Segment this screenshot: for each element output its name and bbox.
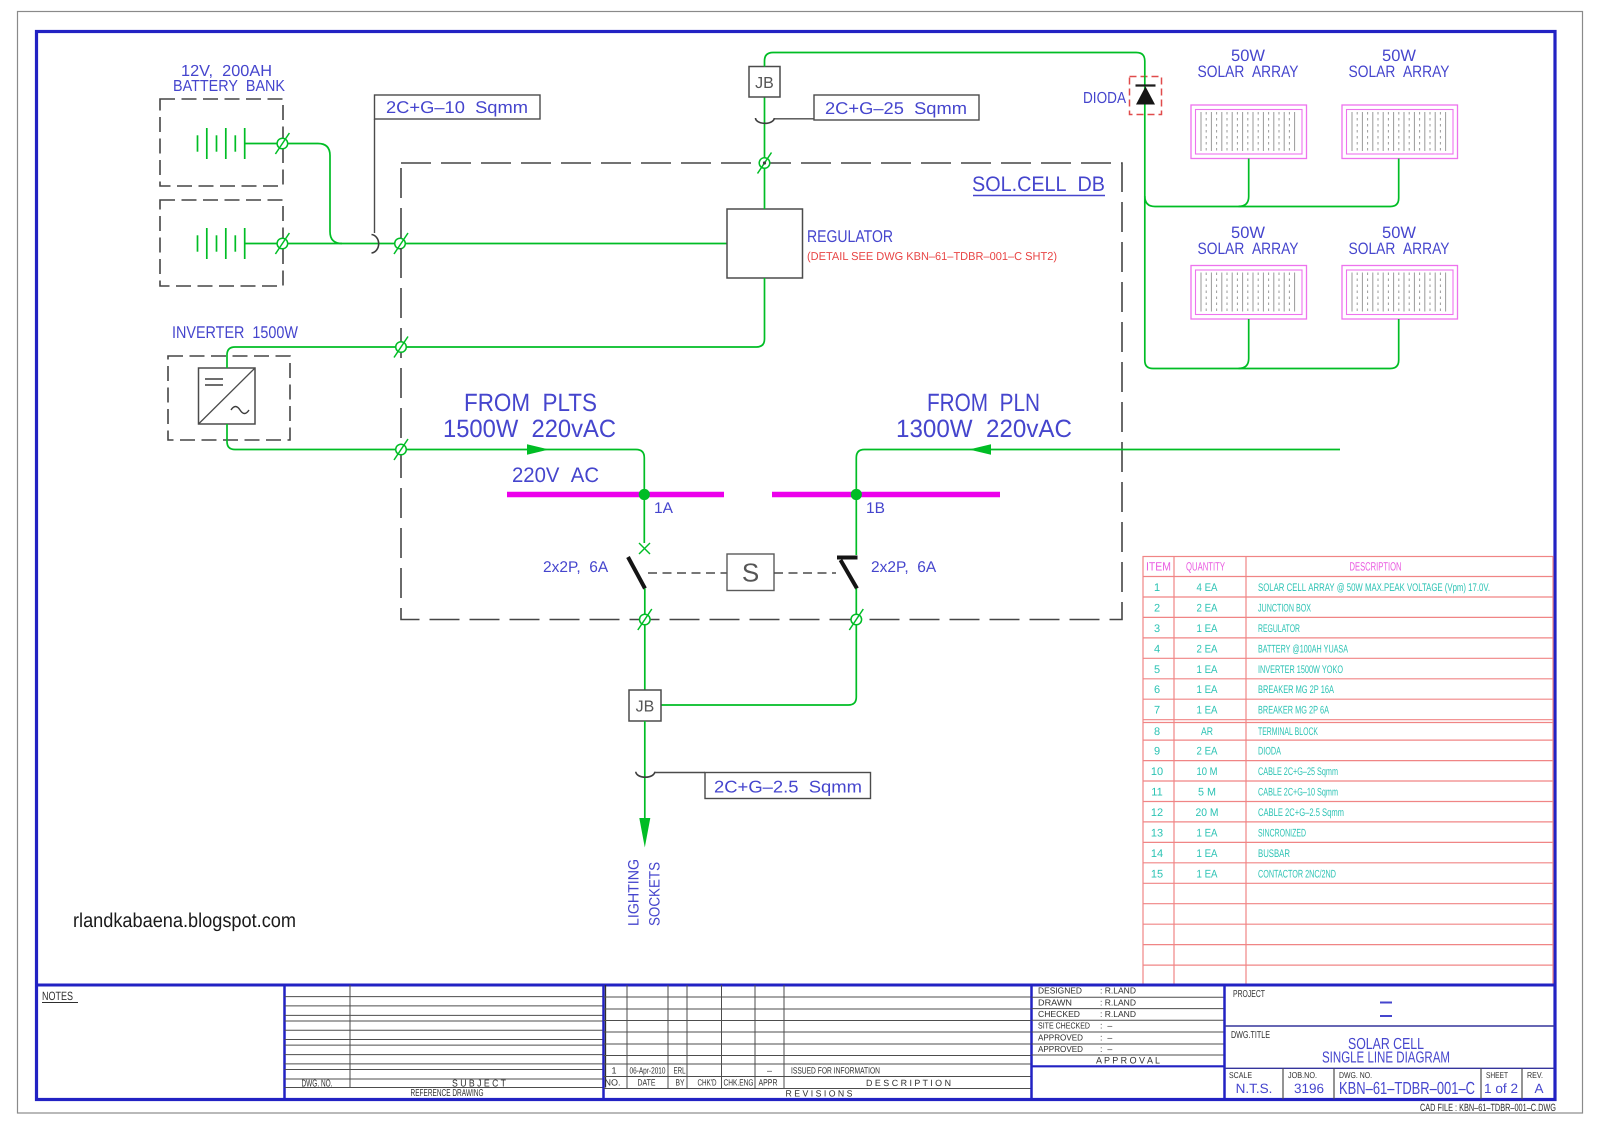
svg-text:–: – [767, 1066, 772, 1076]
dashed link breaker1 to S [648, 572, 727, 574]
svg-text:APPR: APPR [759, 1078, 778, 1088]
approval entries [1038, 986, 1160, 1067]
wire inverter to regulator [227, 278, 765, 368]
project divider [1223, 985, 1226, 1100]
dwg title label [1231, 1030, 1270, 1041]
junction terminal DB left (AC feed) [394, 439, 408, 460]
svg-text:CABLE 2C+G–10 Sqmm: CABLE 2C+G–10 Sqmm [1258, 787, 1338, 799]
svg-text:JOB.NO.: JOB.NO. [1288, 1070, 1317, 1080]
svg-text:REV.: REV. [1527, 1070, 1543, 1080]
svg-text:CABLE 2C+G–25 Sqmm: CABLE 2C+G–25 Sqmm [1258, 766, 1338, 778]
SOL.CELL DB label [972, 173, 1105, 196]
cad file note [1420, 1102, 1556, 1114]
svg-text:BREAKER MG 2P 16A: BREAKER MG 2P 16A [1258, 684, 1334, 696]
svg-text:2C+G–10 Sqmm: 2C+G–10 Sqmm [386, 98, 528, 117]
2x2P 6A label right [871, 559, 937, 576]
solar panel PV1 [1191, 105, 1307, 159]
BOM table grid [1143, 557, 1553, 986]
svg-text:15: 15 [1151, 868, 1163, 880]
battery B2 [198, 228, 245, 259]
node 1A [639, 489, 674, 517]
revisions divider [604, 985, 606, 1100]
node 1B [851, 489, 885, 517]
battery B1 [198, 128, 245, 159]
svg-text:1: 1 [611, 1066, 616, 1076]
wire 1B to breaker CB2 [855, 495, 857, 556]
svg-text:AR: AR [1201, 726, 1213, 738]
solar panel PV4 [1342, 266, 1458, 320]
cable label 2C+G-25 box [814, 95, 979, 120]
svg-text:BATTERY BANK: BATTERY BANK [173, 78, 285, 95]
svg-text:REGULATOR: REGULATOR [807, 227, 893, 246]
svg-text:DATE: DATE [638, 1078, 656, 1088]
svg-text:FROM PLN: FROM PLN [927, 389, 1040, 417]
svg-text:11: 11 [1151, 787, 1162, 799]
svg-text:SOLAR ARRAY: SOLAR ARRAY [1349, 240, 1450, 258]
wire breaker CB1 down [644, 589, 646, 691]
wire battery B2 lead [245, 243, 277, 245]
svg-text:13: 13 [1151, 827, 1163, 839]
svg-text:NOTES: NOTES [42, 989, 73, 1003]
svg-text:CHK'D: CHK'D [698, 1078, 717, 1088]
title block top blue line [37, 984, 1555, 987]
svg-text:1 of 2: 1 of 2 [1484, 1081, 1518, 1096]
leader line cable 10 [374, 119, 376, 233]
svg-text:QUANTITY: QUANTITY [1186, 560, 1225, 574]
svg-text:DESIGNED: DESIGNED [1038, 986, 1082, 996]
scale row labels [1229, 1070, 1543, 1080]
svg-text:N.T.S.: N.T.S. [1236, 1081, 1273, 1096]
svg-text:2C+G–25 Sqmm: 2C+G–25 Sqmm [825, 99, 967, 118]
svg-text:INVERTER 1500W: INVERTER 1500W [172, 323, 298, 342]
svg-text:10 M: 10 M [1197, 766, 1218, 778]
arrow PLTS flow [527, 444, 549, 454]
svg-text:7: 7 [1154, 705, 1160, 717]
breaker CB1 top contact X [639, 543, 650, 554]
svg-text:CHK.ENG: CHK.ENG [724, 1078, 754, 1088]
svg-text:SINGLE LINE DIAGRAM: SINGLE LINE DIAGRAM [1322, 1050, 1450, 1067]
lighting sockets label [626, 859, 664, 926]
scale row values [1236, 1078, 1544, 1098]
svg-text:20 M: 20 M [1196, 807, 1219, 819]
svg-text:2 EA: 2 EA [1197, 746, 1219, 758]
junction terminal DB bottom left [638, 609, 652, 630]
approval divider left [1030, 985, 1033, 1100]
junction box JB1 [749, 67, 780, 98]
svg-text:5: 5 [1154, 664, 1160, 676]
svg-text:SCALE: SCALE [1229, 1070, 1252, 1080]
wire PLN feed to busbar 1B [856, 450, 1340, 492]
svg-text:1 EA: 1 EA [1197, 623, 1219, 635]
cable label 2C+G-2.5 box [705, 773, 871, 799]
svg-text:12: 12 [1151, 807, 1163, 819]
svg-text:JUNCTION BOX: JUNCTION BOX [1258, 602, 1311, 614]
solar array label 3 [1198, 224, 1299, 258]
svg-text:ISSUED FOR INFORMATION: ISSUED FOR INFORMATION [791, 1066, 880, 1076]
FROM PLN label [896, 389, 1072, 443]
svg-text:2: 2 [1154, 602, 1160, 614]
svg-text:1 EA: 1 EA [1197, 848, 1219, 860]
svg-text:2x2P, 6A: 2x2P, 6A [543, 559, 609, 576]
svg-text:SOLAR CELL ARRAY @ 50W MAX.PEA: SOLAR CELL ARRAY @ 50W MAX.PEAK VOLTAGE … [1258, 582, 1490, 594]
svg-text:SOLAR ARRAY: SOLAR ARRAY [1198, 240, 1299, 258]
svg-text:1500W 220vAC: 1500W 220vAC [443, 415, 616, 443]
arrow PLN flow [969, 444, 991, 454]
svg-text:DIODA: DIODA [1258, 746, 1281, 758]
scale row divider [1225, 1067, 1555, 1069]
wire regulator to JB [764, 97, 766, 209]
wire drop PV1 [1239, 159, 1249, 207]
cable marker arc below JB2 [636, 772, 655, 777]
regulator U1 [727, 209, 803, 278]
svg-text:D E S C R I P T I O N: D E S C R I P T I O N [866, 1078, 951, 1088]
svg-text:LIGHTING: LIGHTING [626, 859, 643, 926]
breaker CB2 blade [841, 560, 858, 589]
approval bottom blue line [1032, 1065, 1225, 1067]
220V AC label [512, 464, 599, 487]
inverter G1 symbol [199, 368, 256, 424]
busbar 1A [507, 492, 724, 498]
svg-text:3: 3 [1154, 623, 1160, 635]
battery bank label [173, 63, 285, 95]
svg-text:: –: : – [1100, 1021, 1112, 1031]
wire drop PV3 [1239, 319, 1249, 368]
svg-text:3196: 3196 [1294, 1081, 1324, 1096]
wire battery B1 lead [245, 143, 277, 145]
wire JB2 down [644, 721, 646, 818]
junction terminal at DB top (regulator feed) [758, 153, 772, 174]
svg-text:INVERTER 1500W YOKO: INVERTER 1500W YOKO [1258, 664, 1343, 676]
svg-text:SHEET: SHEET [1486, 1070, 1508, 1080]
svg-text:1 EA: 1 EA [1197, 868, 1219, 880]
dioda D1 symbol [1136, 86, 1156, 105]
watermark blogspot [73, 910, 296, 932]
svg-text:BUSBAR: BUSBAR [1258, 848, 1290, 860]
FROM PLTS label [443, 389, 616, 443]
wire inverter AC out to busbar 1A [227, 424, 644, 491]
svg-text:CHECKED: CHECKED [1038, 1009, 1080, 1019]
svg-text:1 EA: 1 EA [1197, 827, 1219, 839]
wire collector row 2 [1153, 319, 1399, 369]
notes label [42, 989, 78, 1003]
svg-text:DRAWN: DRAWN [1038, 997, 1072, 1007]
arrow to lighting loads [639, 818, 650, 848]
svg-text:PROJECT: PROJECT [1233, 989, 1265, 1000]
svg-text:rlandkabaena.blogspot.com: rlandkabaena.blogspot.com [73, 910, 296, 932]
svg-text:1: 1 [1154, 582, 1160, 594]
solar panel PV2 [1342, 105, 1458, 159]
leader line cable 2.5 [655, 772, 706, 774]
junction box JB2 [629, 690, 661, 721]
svg-text:1300W 220vAC: 1300W 220vAC [896, 415, 1072, 443]
svg-text:2x2P, 6A: 2x2P, 6A [871, 559, 937, 576]
terminal battery B1 [275, 133, 289, 154]
cable marker arc on battery bus [372, 235, 379, 254]
svg-text:ERL: ERL [674, 1066, 686, 1076]
svg-text:SOCKETS: SOCKETS [647, 862, 664, 926]
svg-text:1B: 1B [866, 500, 885, 517]
wire 1A to breaker [643, 495, 645, 544]
svg-text:(DETAIL SEE DWG KBN–61–TDBR–00: (DETAIL SEE DWG KBN–61–TDBR–001–C SHT2) [807, 251, 1057, 263]
svg-text:4: 4 [1154, 643, 1160, 655]
svg-text:SINCRONIZED: SINCRONIZED [1258, 827, 1306, 839]
2x2P 6A label left [543, 559, 609, 576]
terminal battery B2 [275, 233, 289, 254]
dashed link S to breaker2 [774, 572, 836, 574]
svg-text:A P P R O V A L: A P P R O V A L [1096, 1056, 1160, 1067]
svg-text:NO.: NO. [605, 1078, 621, 1088]
dwg title divider [1225, 1025, 1555, 1027]
svg-text:JB: JB [636, 699, 655, 716]
svg-text:JB: JB [755, 75, 774, 92]
svg-text:S: S [742, 558, 759, 588]
dwg title text [1322, 1036, 1450, 1067]
svg-text:8: 8 [1154, 726, 1160, 738]
svg-text:BREAKER MG 2P 6A: BREAKER MG 2P 6A [1258, 705, 1329, 717]
svg-text:: R.LAND: : R.LAND [1100, 986, 1136, 996]
svg-text:DWG.TITLE: DWG.TITLE [1231, 1030, 1270, 1041]
svg-text:10: 10 [1151, 766, 1163, 778]
svg-text:BY: BY [676, 1078, 685, 1088]
approval grid [1032, 997, 1225, 1055]
junction terminal DB bottom right [849, 609, 863, 630]
battery bank box 2 [160, 200, 283, 286]
svg-text:: –: : – [1100, 1044, 1112, 1054]
dioda dashed box [1130, 77, 1162, 115]
regulator label [807, 227, 1057, 263]
cable label 2C+G-10 box [375, 95, 541, 119]
notes divider [283, 985, 286, 1100]
solar array label 4 [1349, 224, 1450, 258]
svg-text:1A: 1A [654, 500, 674, 517]
svg-text:1 EA: 1 EA [1197, 684, 1219, 696]
breaker CB2 top bar [837, 556, 858, 560]
wire breaker CB2 down to JB2 [662, 589, 857, 706]
svg-text:APPROVED: APPROVED [1038, 1033, 1083, 1043]
svg-text:06-Apr-2010: 06-Apr-2010 [630, 1066, 666, 1076]
svg-text:1 EA: 1 EA [1197, 705, 1219, 717]
svg-text:14: 14 [1151, 848, 1163, 860]
scale row grid [1283, 1068, 1522, 1099]
svg-text:: R.LAND: : R.LAND [1100, 1009, 1136, 1019]
svg-text:SOLAR ARRAY: SOLAR ARRAY [1349, 63, 1450, 81]
svg-text:SITE CHECKED: SITE CHECKED [1038, 1021, 1090, 1031]
revision row 1 entry [611, 1066, 880, 1076]
svg-text:: –: : – [1100, 1033, 1112, 1043]
solar array label 1 [1198, 47, 1299, 81]
project dashes [1380, 1003, 1392, 1017]
svg-text:: R.LAND: : R.LAND [1100, 997, 1136, 1007]
solar panel PV3 [1191, 266, 1307, 320]
svg-text:CABLE 2C+G–2.5 Sqmm: CABLE 2C+G–2.5 Sqmm [1258, 807, 1344, 819]
wire battery bus to regulator [288, 243, 727, 245]
svg-text:CONTACTOR 2NC/2ND: CONTACTOR 2NC/2ND [1258, 868, 1336, 880]
svg-text:R E V I S I O N S: R E V I S I O N S [786, 1089, 853, 1099]
wire battery B1 to bus [288, 144, 342, 244]
busbar 1B [772, 492, 1000, 498]
svg-text:ITEM: ITEM [1146, 560, 1171, 574]
svg-text:SOL.CELL DB: SOL.CELL DB [972, 173, 1105, 196]
solar array label 2 [1349, 47, 1450, 81]
svg-text:CAD FILE : KBN–61–TDBR–001–C.D: CAD FILE : KBN–61–TDBR–001–C.DWG [1420, 1102, 1556, 1114]
cable marker arc below JB1 [756, 118, 775, 123]
wire JB1 to dioda (top run) [765, 53, 1145, 77]
svg-text:DWG. NO.: DWG. NO. [302, 1079, 333, 1090]
battery bank box 1 [160, 99, 283, 186]
reference drawing labels [302, 1079, 507, 1100]
svg-text:DIODA: DIODA [1083, 90, 1126, 107]
BOM table headers [1146, 560, 1402, 574]
svg-text:BATTERY @100AH YUASA: BATTERY @100AH YUASA [1258, 643, 1348, 655]
wire collector row 1 [1145, 159, 1399, 207]
svg-text:APPROVED: APPROVED [1038, 1044, 1083, 1054]
svg-text:TERMINAL BLOCK: TERMINAL BLOCK [1258, 726, 1318, 738]
svg-text:KBN–61–TDBR–001–C: KBN–61–TDBR–001–C [1339, 1078, 1475, 1098]
inverter dashed box [168, 356, 290, 440]
revisions grid [604, 985, 1032, 1089]
breaker CB1 blade [628, 557, 645, 589]
wire through dioda down to arrays [1145, 76, 1153, 369]
svg-text:6: 6 [1154, 684, 1160, 696]
junction terminal at DB entry (battery feed) [394, 233, 408, 254]
project label [1233, 989, 1265, 1000]
svg-text:1 EA: 1 EA [1197, 664, 1219, 676]
svg-text:A: A [1534, 1081, 1543, 1096]
BOM table rows [1151, 582, 1490, 880]
svg-text:2C+G–2.5 Sqmm: 2C+G–2.5 Sqmm [714, 778, 862, 797]
SOL.CELL DB panel dashed box [401, 163, 1122, 620]
svg-text:FROM PLTS: FROM PLTS [464, 389, 597, 417]
svg-text:REFERENCE DRAWING: REFERENCE DRAWING [411, 1088, 484, 1099]
revisions column labels [605, 1078, 952, 1099]
svg-text:220V AC: 220V AC [512, 464, 599, 487]
svg-text:4 EA: 4 EA [1197, 582, 1219, 594]
dioda label [1083, 90, 1126, 107]
inverter label [172, 323, 298, 342]
synchronizer S box [727, 554, 774, 591]
junction terminal DB left (regulator-inverter) [394, 337, 408, 358]
svg-text:SOLAR ARRAY: SOLAR ARRAY [1198, 63, 1299, 81]
svg-text:REGULATOR: REGULATOR [1258, 623, 1300, 635]
leader line cable 25 [774, 118, 814, 120]
reference drawing grid [285, 985, 604, 1088]
svg-text:DESCRIPTION: DESCRIPTION [1350, 560, 1402, 574]
svg-text:5 M: 5 M [1198, 787, 1216, 799]
svg-text:9: 9 [1154, 746, 1160, 758]
svg-text:2 EA: 2 EA [1197, 643, 1219, 655]
svg-text:2 EA: 2 EA [1197, 602, 1219, 614]
